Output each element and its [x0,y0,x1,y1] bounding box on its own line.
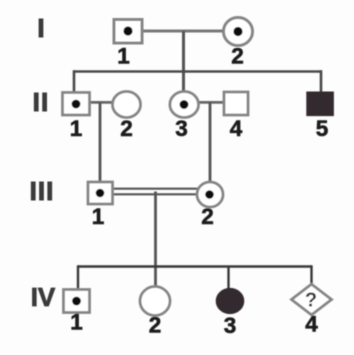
individual II-5: affected male filled square [307,92,334,116]
individual IV-4: unknown sex diamond [292,284,332,315]
svg-text:2: 2 [149,313,162,338]
wire: drop from II-3/II-4 marriage to III-2 [209,102,212,182]
svg-text:1: 1 [117,44,130,69]
dot marker I-1 [123,26,132,35]
svg-text:?: ? [305,290,317,312]
svg-text:2: 2 [201,204,214,229]
dot marker II-3 [180,100,189,109]
svg-text:III: III [30,176,55,206]
dot marker III-1 [96,189,105,198]
wire: consanguineous double marriage line III-1 x III-2 (lower) [112,193,198,195]
wire: drop to IV-4 [310,265,312,285]
wire: marriage line II-3 x II-4 [198,101,225,104]
individual IV-1: carrier male square [64,290,90,313]
individual II-1: carrier male square [63,93,90,116]
individual II-4: male square [224,92,248,115]
individual II-2: female circle [113,92,141,118]
individual I-1: carrier male square [114,20,142,44]
svg-text:1: 1 [70,116,83,141]
individual I-2: carrier female circle [224,18,253,46]
dot marker IV-1 [72,297,81,306]
svg-text:3: 3 [175,116,188,141]
wire: sibship line generation II [74,70,322,73]
wire: drop from II-1/II-2 marriage to III-1 [99,102,102,182]
svg-text:2: 2 [231,44,244,69]
wire: drop to II-1 [73,70,76,92]
svg-text:5: 5 [316,116,329,141]
svg-text:2: 2 [120,116,133,141]
svg-text:IV: IV [31,282,56,312]
individual II-3: carrier female circle [170,92,199,118]
wire: couple line I-1 to I-2 [142,30,224,33]
svg-text:1: 1 [70,310,83,335]
svg-text:4: 4 [305,312,318,337]
svg-text:1: 1 [92,204,105,229]
dot marker I-2 [233,27,242,36]
wire: drop to II-5 [320,70,323,92]
individual IV-2: female circle [140,287,170,316]
wire: descent from I couple down to II-3 [182,31,185,92]
svg-text:I: I [37,13,44,43]
wire: consanguineous double marriage line III-1 x III-2 (upper) [112,188,198,190]
wire: marriage line II-1 x II-2 [90,101,114,104]
wire: sibship line generation IV [78,265,312,267]
svg-text:3: 3 [224,313,237,338]
svg-text:4: 4 [230,116,243,141]
svg-text:II: II [33,87,50,117]
individual IV-3: affected female filled circle [216,288,244,313]
wire: descent from III couple down to IV-2 [154,192,157,288]
dot marker II-1 [72,100,81,109]
wire: drop to IV-3 [227,267,229,291]
individual III-1: carrier male square [88,182,113,204]
individual III-2: carrier female circle [197,182,223,207]
dot marker III-2 [205,190,214,199]
wire: drop to IV-1 [77,265,79,290]
